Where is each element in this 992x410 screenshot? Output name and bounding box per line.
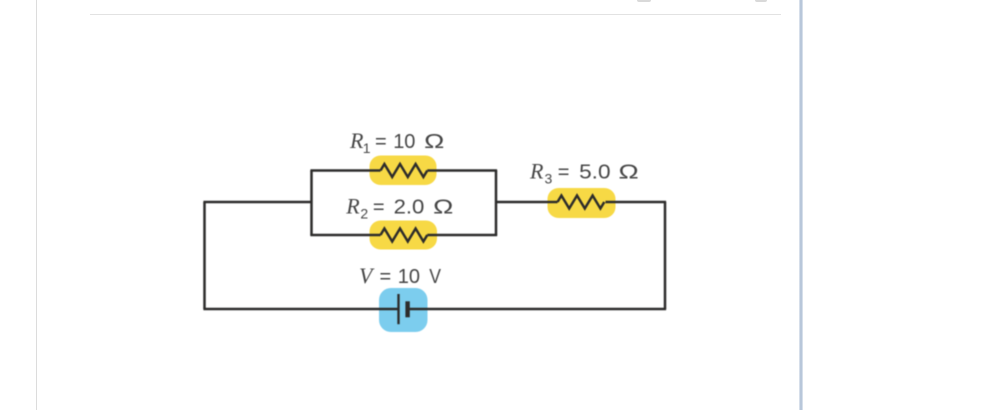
svg-text:Ω: Ω — [433, 196, 454, 219]
wire bottom left segment — [203, 308, 398, 311]
svg-text:V: V — [429, 265, 441, 287]
wire middle rail left segment — [203, 201, 311, 204]
svg-text:R: R — [345, 194, 360, 219]
label R1 = 10 Ohm — [349, 128, 445, 156]
wire middle rail after R3 — [606, 201, 667, 204]
svg-text:2: 2 — [360, 206, 368, 222]
svg-text:2.0: 2.0 — [394, 196, 425, 218]
svg-text:=: = — [373, 197, 385, 219]
svg-text:R: R — [529, 159, 544, 184]
parallel box left side — [310, 170, 313, 235]
svg-text:5.0: 5.0 — [579, 161, 611, 183]
svg-text:=: = — [380, 266, 392, 288]
wire left vertical — [203, 202, 206, 309]
highlight R3 — [548, 188, 616, 218]
box top side right of R1 — [427, 169, 497, 172]
resistor R1 zigzag — [381, 164, 428, 177]
label R2 = 2.0 Ohm — [345, 194, 453, 222]
svg-text:=: = — [375, 131, 387, 153]
svg-text:10: 10 — [393, 131, 415, 153]
svg-text:Ω: Ω — [618, 161, 639, 184]
box bottom side right of R2 — [427, 234, 497, 237]
label R3 = 5.0 Ohm — [529, 159, 639, 187]
highlight R1 — [370, 156, 437, 186]
svg-text:=: = — [558, 162, 570, 184]
highlight R2 — [370, 221, 438, 250]
label V = 10 V — [359, 263, 441, 288]
svg-text:R: R — [349, 128, 364, 153]
battery long plate — [397, 294, 399, 324]
svg-text:Ω: Ω — [424, 130, 445, 153]
resistor R3 zigzag — [558, 196, 605, 209]
text remnant smudge left — [637, 0, 651, 2]
wire right vertical — [664, 202, 667, 309]
highlight battery — [379, 288, 428, 332]
svg-text:10: 10 — [398, 266, 420, 288]
left page border line — [36, 0, 37, 410]
wire middle rail right segment to R3 — [496, 201, 558, 204]
svg-text:3: 3 — [545, 171, 553, 187]
text remnant smudge right — [755, 0, 767, 2]
wire bottom right segment — [408, 308, 666, 311]
box top side left of R1 — [310, 169, 380, 172]
svg-text:1: 1 — [363, 140, 371, 156]
battery short thick plate — [405, 301, 409, 317]
svg-text:V: V — [359, 263, 375, 288]
box bottom side left of R2 — [310, 234, 380, 237]
parallel box right side — [495, 170, 498, 235]
right pane divider line — [799, 0, 803, 410]
resistor R2 zigzag — [381, 229, 428, 242]
top horizontal rule — [90, 14, 781, 15]
